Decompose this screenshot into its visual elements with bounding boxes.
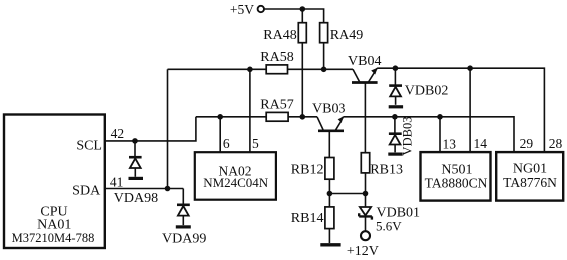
wire SDA upper rail right segment to VB04 — [288, 68, 354, 70]
resistor RB13 — [361, 153, 369, 194]
svg-text:VB03: VB03 — [312, 102, 345, 117]
svg-text:42: 42 — [111, 126, 125, 141]
svg-text:+12V: +12V — [347, 244, 379, 259]
diode VDB03 — [389, 117, 402, 153]
ground bar under VDB03 — [388, 153, 402, 156]
wire pin 14 riser — [469, 68, 471, 152]
wire VB03 emitter rail to pin 29 — [344, 117, 515, 152]
wire SCL from CPU pin 42 — [105, 117, 196, 141]
ground bar under VDB02 — [389, 105, 403, 108]
diode VDB02 — [389, 68, 402, 105]
wire RA49 bottom lead — [323, 43, 325, 70]
ground bar under VDA98 — [129, 177, 144, 180]
wire pin 6 riser — [219, 117, 221, 152]
resistor RA49 — [320, 23, 328, 43]
+12V terminal — [361, 231, 370, 240]
wire SDA riser up to upper rail — [167, 69, 169, 188]
resistor RB14 — [325, 194, 334, 244]
svg-text:VDB02: VDB02 — [405, 83, 449, 98]
svg-text:RA48: RA48 — [263, 28, 296, 43]
IC NA02 box — [195, 152, 276, 200]
svg-text:5.6V: 5.6V — [376, 218, 402, 233]
wire RA48 bottom lead down to SCL rail — [301, 43, 303, 117]
wire SCL rail left segment — [196, 116, 266, 118]
svg-text:13: 13 — [442, 136, 456, 151]
node VDB02 tap — [393, 65, 399, 71]
+5V terminal — [258, 6, 264, 12]
ground bar under VDA99 — [176, 225, 191, 228]
IC NG01 box — [496, 152, 563, 201]
node SDA riser junction — [165, 186, 171, 192]
wire RB12-RB13 bottom link — [329, 193, 365, 195]
svg-text:6: 6 — [223, 136, 230, 151]
svg-text:M37210M4-788: M37210M4-788 — [12, 231, 95, 245]
svg-text:SDA: SDA — [72, 183, 101, 198]
node pin5 riser — [247, 67, 253, 73]
IC N501 box — [421, 152, 491, 201]
node VDA98 tap — [132, 138, 138, 144]
svg-text:41: 41 — [110, 174, 124, 189]
svg-text:RA57: RA57 — [260, 97, 293, 112]
wire SCL rail right segment to VB03 — [288, 116, 317, 118]
svg-text:29: 29 — [520, 136, 534, 151]
node VDB03 tap — [392, 114, 398, 120]
svg-text:VDA99: VDA99 — [162, 231, 206, 246]
wire SDA from CPU pin 41 — [105, 188, 183, 190]
resistor RA58 — [266, 65, 287, 74]
svg-text:+5V: +5V — [230, 2, 254, 17]
svg-text:14: 14 — [473, 136, 487, 151]
node pin6 riser — [217, 114, 223, 120]
svg-text:RB13: RB13 — [370, 163, 403, 178]
svg-text:RB14: RB14 — [291, 211, 324, 226]
node RA49 on SDA rail — [321, 67, 327, 73]
svg-text:RA49: RA49 — [330, 28, 363, 43]
svg-text:TA8776N: TA8776N — [503, 175, 557, 190]
svg-text:NM24C04N: NM24C04N — [203, 175, 269, 190]
transistor VB03 — [317, 116, 344, 157]
node pin14 riser — [467, 65, 473, 71]
transistor VB04 — [352, 68, 378, 153]
wire VB04 emitter rail to pin 28 — [377, 68, 544, 152]
svg-text:VDB03: VDB03 — [401, 117, 415, 156]
svg-text:28: 28 — [549, 136, 563, 151]
svg-text:RB12: RB12 — [291, 163, 324, 178]
resistor RA48 — [298, 23, 306, 43]
diode VDA99 — [177, 189, 190, 226]
svg-text:RA58: RA58 — [260, 50, 293, 65]
ground bar under RB14 — [320, 243, 340, 246]
svg-text:VDA98: VDA98 — [114, 191, 158, 206]
zener diode VDB01 — [359, 194, 372, 231]
wire pin 5 riser — [249, 69, 251, 152]
wire pin 13 riser — [439, 117, 441, 152]
svg-text:TA8880CN: TA8880CN — [425, 175, 488, 190]
wire RA48 top lead — [301, 9, 303, 23]
svg-text:VB04: VB04 — [348, 54, 381, 69]
node RA48 bottom junction — [300, 114, 306, 120]
resistor RB12 — [325, 158, 334, 194]
wire +5V rail — [264, 9, 323, 23]
svg-text:5: 5 — [252, 136, 259, 151]
diode VDA98 — [129, 141, 142, 177]
node RB12 bottom — [327, 191, 333, 197]
IC CPU box — [4, 115, 105, 249]
node RB13 bottom — [363, 191, 369, 197]
node at RA48 top — [300, 6, 306, 12]
svg-text:SCL: SCL — [76, 138, 102, 153]
resistor RA57 — [266, 112, 288, 121]
node pin13 riser — [437, 114, 443, 120]
wire SDA upper rail left segment — [168, 68, 267, 70]
